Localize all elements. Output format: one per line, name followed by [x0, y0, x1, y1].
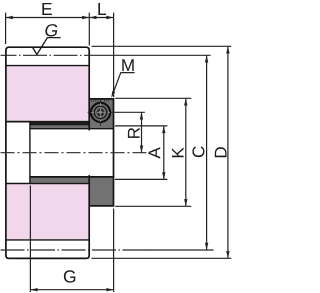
set screw center point — [99, 111, 102, 114]
hub bottom extension — [115, 205, 191, 207]
dimension line E — [6, 17, 90, 19]
label E — [42, 3, 51, 15]
dimension line L — [89, 17, 113, 19]
label G bottom — [64, 270, 75, 282]
gear body silhouette outline — [6, 47, 89, 258]
tip diameter extension top — [92, 45, 232, 47]
web/sleeve boundary lower — [6, 183, 90, 185]
label G surface — [45, 24, 57, 36]
extension line L right — [113, 13, 115, 97]
label M — [122, 59, 133, 71]
bore line lower — [30, 176, 114, 178]
tooth root line upper — [6, 65, 89, 67]
extension line G right — [113, 209, 115, 293]
set screw centerline cross (light over rings) — [91, 103, 110, 122]
set screw horizontal centerline — [88, 111, 145, 113]
label K — [172, 147, 184, 157]
hub outline — [89, 99, 113, 206]
sleeve bottom extension — [115, 178, 167, 180]
hub sleeve section lower (gray fill) — [30, 178, 114, 206]
hub thread tick marks — [92, 100, 109, 102]
set screw hex socket — [96, 109, 105, 117]
tip diameter extension bottom — [92, 257, 232, 259]
dimension R — [141, 112, 143, 152]
pitch line upper — [1, 54, 101, 56]
leader M — [112, 73, 134, 95]
tooth root line lower — [6, 239, 89, 241]
extension line E left — [5, 13, 7, 44]
dimension K — [185, 98, 187, 206]
set screw vertical centerline — [100, 100, 102, 126]
label A — [149, 147, 161, 158]
gear rim section lower (pink fill) — [7, 184, 89, 239]
main centerline — [1, 152, 148, 154]
label D — [215, 147, 227, 157]
extension line E/L shared — [88, 13, 90, 46]
counterbore step edge — [29, 122, 31, 184]
dimension D — [227, 46, 229, 258]
label R — [128, 128, 140, 138]
hub sleeve section upper (gray fill) — [30, 99, 114, 128]
pitch line lower — [1, 249, 151, 251]
sleeve top extension — [115, 125, 167, 127]
hub top extension — [115, 97, 191, 99]
set screw M outer circle — [91, 103, 110, 122]
dimension line G bottom — [30, 289, 113, 291]
merged dark band gear-bore/hub-outer upper — [30, 121, 90, 126]
label C — [192, 146, 204, 157]
web/sleeve boundary upper — [6, 121, 31, 123]
surface finish mark — [32, 38, 60, 55]
extension line G left — [29, 186, 31, 293]
dimension C — [206, 55, 208, 250]
bore line upper — [30, 128, 114, 130]
label L — [98, 3, 106, 15]
gear rim section upper (pink fill) — [7, 66, 89, 121]
set screw thread circle — [94, 106, 106, 118]
dimension A — [163, 126, 165, 179]
